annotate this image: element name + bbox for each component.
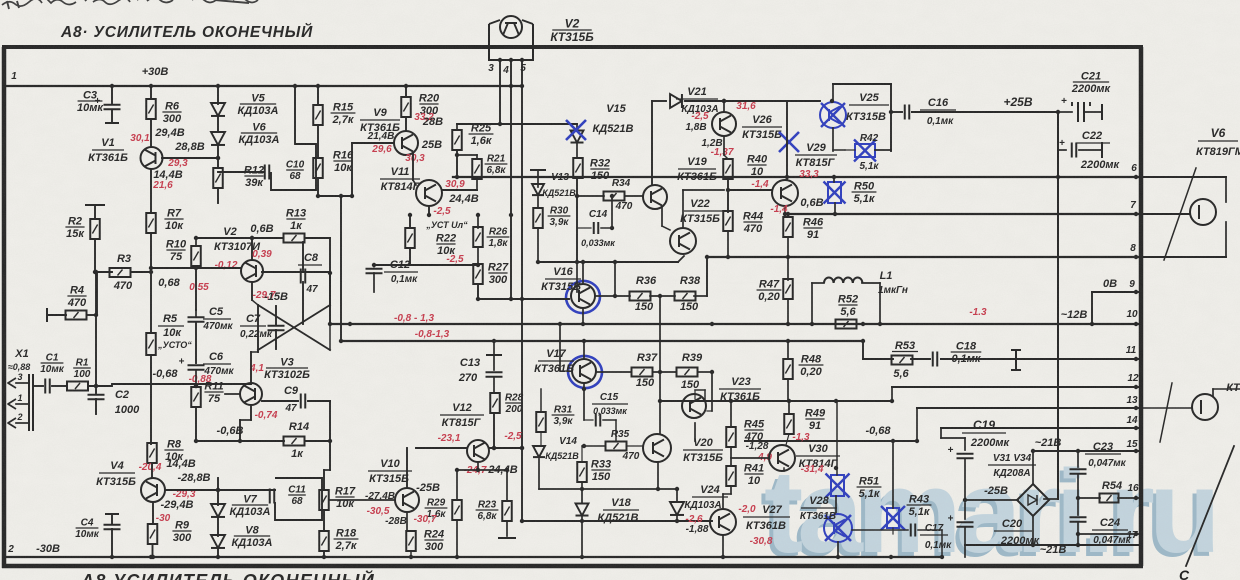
resistor R4 left T [46,314,48,316]
wire R12 node to C10 [218,171,264,173]
wire V3 to C9 [262,400,298,402]
wire R44 to line8 [727,231,729,257]
wire V10 base left [329,499,395,501]
wire X to V3 collector [250,352,252,383]
transistor V26 [712,112,736,136]
wire V9 emitter to V11 [412,153,414,180]
wire line8 to R47 [787,257,789,280]
wire pin5 to rail [521,60,523,86]
C11 loop box [275,478,322,520]
diode V18 [576,504,589,516]
resistor R39 [677,368,698,377]
wire V17 to R37 [596,371,631,373]
wire column to bus B [340,196,342,341]
diode V8 [211,535,225,548]
wire V26 base [723,101,725,112]
wire V28 down [837,542,839,557]
wire to C20 [964,503,966,519]
transistor V11 KT814G [416,180,442,206]
transistor V4 [141,478,165,502]
wire to V9 base [352,142,394,144]
resistor R1 [67,382,88,391]
resistor R5 (trimmer UST0) [146,333,156,355]
wire to V29 base [728,189,772,191]
wire line12 to R45 [730,401,732,427]
resistor R16 [313,158,323,178]
wire L1 left [812,282,824,284]
wire to R23 [506,470,508,500]
capacitor C24 [1070,516,1087,518]
wire R51 to V28 [835,496,837,513]
capacitor C7 stub [275,306,277,325]
wire R42 right [875,149,891,151]
transistor V10 [395,488,419,512]
capacitor C23 [1070,468,1087,470]
capacitor C10 [264,165,266,180]
wire C14 left [577,227,591,229]
transistor V6 external [1190,199,1216,225]
wire V14 down [538,459,540,489]
diode V7 [211,504,225,517]
wire V9 base column [351,143,353,196]
wire R32 bottom to R34 [577,195,604,197]
wire line 12 right [892,386,1141,388]
wire C23 down [1077,474,1079,498]
resistor R23 [502,501,512,521]
wire bus B to C13 [493,341,495,355]
wire ~21V bottom line [965,544,1141,546]
wire R11 down [195,407,197,441]
wire R31 to V14 [540,432,542,446]
wire rail to C10 loop [294,86,296,144]
blue circle around V16 [563,278,603,316]
wire V27 collector [722,494,724,509]
junction dots [110,84,114,88]
resistor R40 [723,159,733,179]
wire line 6 [453,176,1141,178]
wire R20 to V9 [405,117,407,131]
capacitor C11 [269,489,271,504]
resistor R21 [472,159,482,179]
capacitor C6 [188,364,205,366]
wire line14 jog [940,428,942,438]
resistor R28 [490,393,500,413]
transistor V19 [643,185,667,209]
wire bridge down [1032,516,1034,545]
wire to R22 [409,215,411,228]
wire V15 to R32 [576,144,578,158]
resistor R54 [1100,494,1119,503]
capacitor C13 [486,371,503,373]
resistor R31 [536,412,546,432]
wire V27 emitter to bus [722,535,724,557]
wire down to R14 line [329,401,331,441]
wire 0,6V node [196,237,283,239]
resistor R22 [405,228,415,248]
resistor R50 (blue, deleted) [828,182,841,203]
wire V5-V6 [217,117,219,132]
wire line15 to C23 [1077,451,1079,467]
transistor V12 [467,440,489,462]
wire R3 to spine [131,271,151,273]
svg-text:С: С [1179,567,1190,580]
resistor R37 [632,368,653,377]
wire V16 emitter to bus A [582,308,584,324]
wire C9 right [308,400,330,402]
wire R35 to V20 base [627,445,643,447]
wire C2 stub [95,399,97,414]
wire V21 to V25 [685,100,820,102]
wire ext lower connections [1213,388,1240,390]
capacitor C3 [104,104,121,106]
wire to V21 [652,100,666,102]
wire +30V rail [6,85,522,87]
wire V19 emitter to V22 base [661,207,663,226]
cross wiring X [262,271,330,273]
diode V21 [670,94,682,108]
wire R42 left [845,149,855,151]
transistor V16 [571,284,595,308]
wire line 13 right [917,407,1141,409]
wire C5-C6 [195,322,197,363]
wire V24 top [676,489,678,502]
wire line 15 [1033,450,1141,452]
wire R13 right [305,237,330,239]
capacitor C15 [595,414,597,427]
wire V18 to bus [581,517,583,557]
wire line 11 [941,358,1141,360]
transistor V20 [643,434,671,462]
wire V7-V8 [217,518,219,536]
transistor V2 KT3107I [241,260,263,282]
resistor R17 [319,490,329,510]
wire to V2 collector [251,238,253,260]
resistor R48 [783,359,793,379]
resistor R35 [606,442,627,451]
wire C16 to +25V [912,111,1058,113]
blue X over V15 [566,120,586,140]
wire V1 emitter down [150,169,152,213]
wire R33 to V18 [581,483,583,503]
wire line 16 [1118,497,1141,499]
resistor R14 [284,437,305,446]
wire rail to V5 [217,86,219,104]
wire V12 right [489,447,522,449]
resistor R26 [473,227,483,247]
wire R41 down [730,486,732,494]
wire to R3 [95,271,112,273]
wire +25V column down [1057,112,1059,499]
transistor V1 [141,147,163,169]
capacitor C4 plates [104,524,121,526]
wire V21 row to V29 collector [786,101,788,180]
resistor R4 [66,311,87,320]
wire line8 ext [1141,256,1226,258]
wire to bridge [965,499,1018,501]
connector pin 2 [8,418,16,428]
diode V15 [571,131,584,143]
wire V19 collector up [651,101,653,185]
diode V14 [533,446,545,457]
wire to R29 [456,470,458,500]
wire to V20 collector [659,296,661,434]
wire R38 up to line8 [706,257,708,296]
transistor V29 [772,180,798,206]
wire V10 to V12 base [416,447,467,449]
wire V11 emitter [428,206,430,215]
wire V12 emitter [477,462,479,470]
wire V17 emitter down [583,383,585,420]
wire C20 to bus [964,527,966,557]
resistor R33 [577,462,587,482]
wire bottom -30V bus [6,556,942,558]
resistor R25 [452,130,462,150]
V2 socket bracket [489,24,533,60]
wire C19 down [964,459,966,500]
wire R47 to bus A [787,299,789,324]
wire R31 top stub [540,389,542,412]
wire line 13 left [745,440,917,442]
wire R27 to V16 line [477,284,479,299]
wire V1 base to diode column [162,157,218,159]
connector pin 1 [8,399,16,409]
wire line 8 [707,256,1141,258]
jumper mark on line 11 [1015,350,1017,370]
wire to V7 [217,478,219,505]
resistor R30 [533,208,543,228]
wire R2 down [94,239,96,272]
wire bus B [341,340,863,342]
wire C8 down to bus A [302,282,304,324]
wire V2 emitter down [251,282,253,300]
transistor V28 [824,514,852,542]
wire R7node to R5 [150,272,152,333]
capacitor C8 [300,269,302,284]
wire line 14 [941,427,1141,429]
wire V13 top [537,170,539,187]
wire to V16 base [576,262,578,292]
resistor R29 [452,500,462,520]
wire to R36 [614,262,616,296]
watermark tamari.ru [760,446,1215,580]
wire C15 left [584,419,593,421]
resistor R8 [147,443,157,463]
resistor R52 [836,320,857,329]
wire to R12 [217,158,219,168]
wire R43 to C17 [892,528,894,534]
wire line13 ext [1141,407,1192,409]
resistor R6 [146,99,156,119]
wire to R54 [1078,497,1100,499]
wire V24 bottom [676,516,678,521]
wire R2 column down [95,272,97,386]
resistor R15 [313,105,323,125]
wire V4 emitter [152,502,154,524]
wire V30 emitter down [783,468,785,471]
wire V26 emitter down [723,136,725,155]
diode V5 [211,103,225,116]
wire V6 down [217,146,219,158]
wire R53-C18 [911,358,930,360]
wire to C16 [891,111,902,113]
wire R33 top [581,446,583,461]
transistor V22 [670,228,696,254]
wire R1 out [89,385,112,387]
wire C1 to R1 [52,385,66,387]
resistor R34 [604,192,625,201]
capacitor C12 [366,268,383,270]
resistor R24 [406,531,416,551]
wire to R21 [457,154,477,156]
capacitor C14 [593,222,595,234]
transistor V30 KT814G [769,445,795,471]
rectifier bridge V31-V34 [1017,484,1049,516]
C10 loop box [271,144,316,190]
wire line13 to R43 [892,441,894,508]
resistor R9 [148,524,158,544]
transistor V23 [682,394,706,418]
mounting slash V6 [1164,168,1196,260]
wire line 9 0V [1092,291,1141,293]
resistor R38 [675,292,696,301]
resistor R27 [473,264,483,284]
wire R7 to R3 node [150,233,152,272]
wire R13 column to bus A [329,238,331,324]
wire R5 to R8 [150,355,152,444]
wire C24 down [1077,522,1079,545]
wire V20 emitter [657,462,659,489]
wire C2 top [95,389,97,393]
capacitor C20 [957,521,974,523]
capacitor C9 [300,394,302,409]
diode V24 [670,502,684,515]
wire R16 down [317,178,319,196]
mounting slash lower [1160,383,1172,442]
diode V6 [211,132,225,145]
wire R22 bottom node [374,264,478,266]
wire V17 base [560,370,572,372]
wire V23 base [707,410,712,412]
wire V22 collector up [682,190,684,228]
wire V29 emitter to line7 [784,206,786,214]
capacitor C17 [910,524,912,537]
resistor R44 [723,211,733,231]
wire line6 ext [1141,176,1226,178]
resistor R53 [892,356,913,365]
transistor V3 [240,383,262,405]
wire V16 collector [582,262,584,284]
resistor R7 [146,213,156,233]
wire V17 collector to bus B [583,341,585,359]
resistor R47 [783,279,793,299]
resistor R49 [784,414,794,434]
capacitor C16 [904,105,906,120]
wire V3 emitter [250,405,252,420]
wire V25 down [832,128,834,151]
resistor R45 [726,427,736,447]
resistor R42 (blue, deleted) [855,144,875,157]
resistor R41 [726,466,736,486]
resistor R36 [630,292,651,301]
wire R49 to V30 [786,434,789,445]
wire V25 top loop [832,84,834,101]
capacitor C19 [957,453,974,455]
wire line 12 left [660,400,892,402]
wire V15 top [576,124,578,131]
wire R10 top [195,238,197,246]
wire line 17 [1078,533,1141,535]
wire V23 emitter down [694,423,696,441]
wire V10 collector up [406,448,408,488]
wire R40 to R44 [727,179,729,212]
wire line12 to R49 [788,401,790,414]
wire R25 to line6 [456,150,458,177]
resistor R20 [401,97,411,117]
wire base column down [195,268,197,310]
top margin handwriting [2,0,258,6]
resistor R32 [573,158,583,178]
wire R34 to C14 [611,196,613,228]
blue circle around V17 [565,352,606,391]
wire V23 collector [694,390,696,399]
transistor ext lower [1192,394,1218,420]
capacitor C22 plates [1071,143,1073,158]
inductor L1 [824,278,862,284]
wire 489 row [539,488,677,490]
wire R45-R41 [730,447,732,466]
resistor R6 top wire [150,86,152,99]
wire R32 down [576,178,578,262]
resistor R10 [191,246,201,266]
wire V16 to R36 [595,295,630,297]
wire rail to R20 [405,86,407,97]
wire line7 ext [1141,213,1190,215]
transistor V17 [572,359,596,383]
border frame [2,45,1143,49]
capacitor C7 [268,325,285,327]
resistor R13 [284,234,305,243]
wire line12 to R51 [836,401,838,475]
wire line 7 [785,213,1141,215]
paper grain overlay [0,0,1,1]
blue X deleted wire [779,132,799,152]
capacitor C18 [932,352,934,367]
connector pin 3 [8,378,16,388]
wire bus B to R48 [787,341,789,359]
wire V11 collector right [442,189,477,191]
wire 262 row [538,261,678,263]
resistor R2 top T [85,204,105,206]
transistor V2 (top) [500,16,522,38]
wire V2 base left [151,267,241,269]
wire R6 to V1 [150,119,152,147]
resistor R51 (blue, deleted) [831,475,844,496]
wire to C11 loop [218,489,275,491]
capacitor C2 [88,394,105,396]
wire to R26 [477,215,479,228]
wire pin3 down [499,60,501,124]
wire V27 base line [522,520,712,522]
wire V3 base stub [225,393,240,395]
wire R17-R18 [323,510,325,531]
wire R12 down [217,188,219,203]
wire C3 stub [111,110,113,123]
resistor R2 [90,219,100,239]
transistor V27 [710,509,736,535]
wire R8 to V4 [151,463,153,478]
resistor R43 (blue, deleted) [881,506,905,530]
wire pin4 down [510,60,512,299]
